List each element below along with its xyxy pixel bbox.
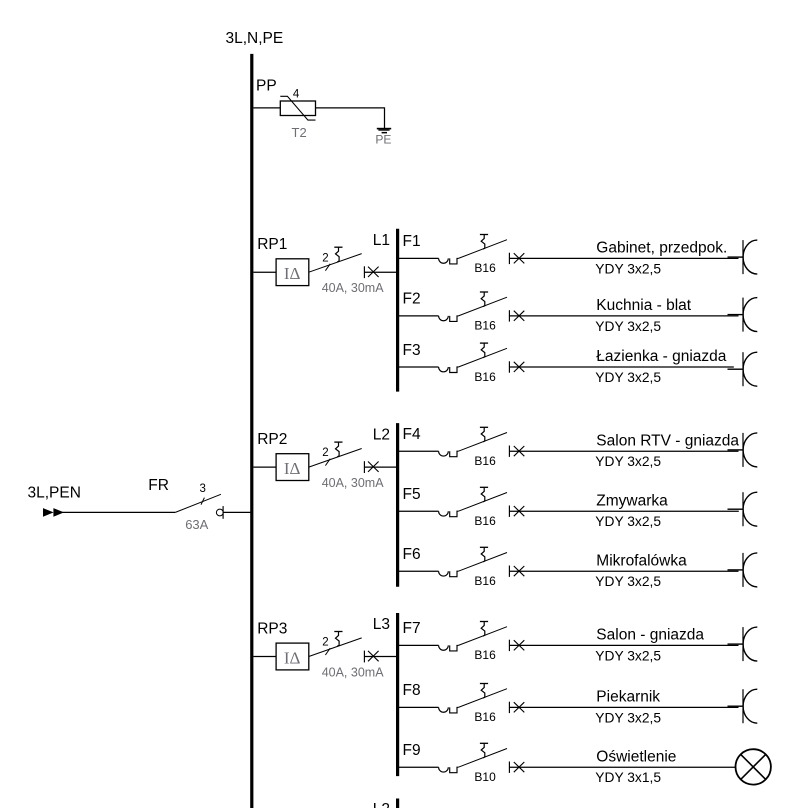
svg-text:YDY 3x2,5: YDY 3x2,5 xyxy=(595,514,661,529)
svg-text:RP1: RP1 xyxy=(257,236,287,253)
svg-text:F1: F1 xyxy=(403,233,421,250)
breaker F8 blade xyxy=(458,689,507,708)
svg-text:FR: FR xyxy=(148,477,169,494)
svg-text:Łazienka - gniazda: Łazienka - gniazda xyxy=(596,348,726,365)
svg-text:IΔ: IΔ xyxy=(284,649,301,668)
RCD RP2 pole tick xyxy=(325,459,330,466)
switch FR pole tick xyxy=(201,498,204,505)
svg-text:F4: F4 xyxy=(403,426,421,443)
incoming feed arrows xyxy=(43,508,64,517)
terminal cross (F6) xyxy=(514,566,525,576)
terminal cross (RP2) xyxy=(368,462,379,472)
svg-text:B16: B16 xyxy=(474,370,496,384)
breaker F9 blade xyxy=(458,749,507,768)
svg-text:B16: B16 xyxy=(474,454,496,468)
svg-text:RP2: RP2 xyxy=(257,431,287,448)
svg-text:3L,N,PE: 3L,N,PE xyxy=(226,30,284,47)
svg-text:B16: B16 xyxy=(474,514,496,528)
svg-text:2: 2 xyxy=(322,447,328,459)
socket symbol (F3) xyxy=(743,352,757,386)
svg-text:YDY 3x2,5: YDY 3x2,5 xyxy=(595,370,661,385)
sub bus L2 xyxy=(396,423,399,587)
terminal cross (F7) xyxy=(514,640,525,650)
breaker F5 blade xyxy=(458,493,507,512)
cable wire (F4) xyxy=(509,450,738,452)
svg-text:Mikrofalówka: Mikrofalówka xyxy=(596,552,687,569)
socket symbol (F4) xyxy=(743,433,757,467)
terminal bar (F6) xyxy=(508,566,510,577)
RCD RP2 body xyxy=(276,454,309,481)
terminal bar (RP2) xyxy=(363,461,365,473)
socket stub (F3) xyxy=(728,368,744,370)
svg-text:Gabinet, przedpok.: Gabinet, przedpok. xyxy=(596,240,727,257)
svg-text:B16: B16 xyxy=(474,574,496,588)
svg-text:3: 3 xyxy=(200,483,206,495)
terminal cross (F5) xyxy=(514,506,525,516)
wire bus to surge arrester xyxy=(253,107,280,109)
terminal cross (F2) xyxy=(514,311,525,321)
cable wire (F6) xyxy=(509,570,738,572)
wire bus to breaker F2 xyxy=(398,315,439,317)
RCD RP2 trip latch xyxy=(334,442,342,457)
wire bus to breaker F4 xyxy=(398,450,439,452)
breaker F9 trip latch xyxy=(480,743,488,758)
svg-text:B16: B16 xyxy=(474,710,496,724)
svg-text:L2: L2 xyxy=(373,427,390,444)
socket stub (F2) xyxy=(728,314,744,316)
breaker F9 thermal element xyxy=(439,767,459,773)
svg-text:YDY 3x2,5: YDY 3x2,5 xyxy=(595,454,661,469)
svg-text:L3: L3 xyxy=(373,616,390,633)
svg-text:RP3: RP3 xyxy=(257,621,287,638)
svg-text:YDY 3x2,5: YDY 3x2,5 xyxy=(595,574,661,589)
breaker F8 thermal element xyxy=(439,707,459,713)
ground symbol PE xyxy=(377,128,391,134)
breaker F8 trip latch xyxy=(480,684,488,699)
switch FR blade xyxy=(175,494,221,512)
svg-text:PE: PE xyxy=(375,132,391,146)
svg-text:B16: B16 xyxy=(474,648,496,662)
wire RCD RP1 to sub bus xyxy=(364,271,397,273)
breaker F7 thermal element xyxy=(439,645,459,651)
terminal bar (F2) xyxy=(508,310,510,321)
breaker F4 blade xyxy=(458,433,507,452)
svg-text:Oświetlenie: Oświetlenie xyxy=(596,748,676,765)
switch FR contact bar xyxy=(222,506,224,519)
wire bus to RCD RP1 xyxy=(253,271,276,273)
svg-text:IΔ: IΔ xyxy=(284,264,301,283)
switch FR fixed contact circle xyxy=(216,509,223,516)
terminal bar (F1) xyxy=(508,253,510,264)
main bus (3L,N,PE) xyxy=(250,54,253,808)
wire down to ground xyxy=(384,107,386,128)
wire switch to main bus xyxy=(223,511,252,513)
svg-text:40A, 30mA: 40A, 30mA xyxy=(322,476,385,490)
wire RCD RP2 to sub bus xyxy=(364,466,397,468)
wire RCD RP3 to sub bus xyxy=(364,656,397,658)
svg-text:YDY 3x2,5: YDY 3x2,5 xyxy=(595,319,661,334)
terminal bar (RP1) xyxy=(363,266,365,278)
breaker F3 trip latch xyxy=(480,343,488,358)
svg-text:PP: PP xyxy=(256,78,277,95)
terminal bar (F5) xyxy=(508,506,510,517)
terminal cross (F9) xyxy=(514,762,525,772)
breaker F7 blade xyxy=(458,627,507,646)
breaker F4 thermal element xyxy=(439,451,459,457)
svg-text:Zmywarka: Zmywarka xyxy=(596,492,668,509)
wire bus to breaker F1 xyxy=(398,257,439,259)
wire feed to switch FR xyxy=(63,511,176,513)
breaker F5 trip latch xyxy=(480,487,488,502)
svg-text:40A, 30mA: 40A, 30mA xyxy=(322,281,385,295)
svg-text:F5: F5 xyxy=(403,486,421,503)
breaker F5 thermal element xyxy=(439,511,459,517)
terminal bar (F8) xyxy=(508,702,510,713)
svg-text:Piekarnik: Piekarnik xyxy=(596,689,660,706)
RCD RP3 pole tick xyxy=(325,648,330,655)
socket stub (F7) xyxy=(728,643,744,645)
RCD RP3 trip latch xyxy=(334,632,342,647)
sub bus L3 xyxy=(396,613,399,776)
svg-text:4: 4 xyxy=(293,88,300,100)
terminal cross (RP1) xyxy=(368,267,379,277)
socket symbol (F6) xyxy=(743,553,757,587)
socket stub (F5) xyxy=(728,508,744,510)
terminal bar (F9) xyxy=(508,762,510,773)
terminal cross (F8) xyxy=(514,702,525,712)
cable wire (F9) xyxy=(509,766,735,768)
terminal cross (F4) xyxy=(514,446,525,456)
breaker F7 trip latch xyxy=(480,622,488,637)
svg-text:F3: F3 xyxy=(403,342,421,359)
terminal bar (F3) xyxy=(508,361,510,372)
svg-text:B10: B10 xyxy=(474,770,496,784)
svg-text:3L,PEN: 3L,PEN xyxy=(28,485,81,502)
breaker F3 thermal element xyxy=(439,367,459,373)
svg-text:Kuchnia - blat: Kuchnia - blat xyxy=(596,297,691,314)
svg-text:F2: F2 xyxy=(403,291,421,308)
wire bus to breaker F5 xyxy=(398,510,439,512)
breaker F1 blade xyxy=(458,240,507,259)
svg-text:F8: F8 xyxy=(403,682,421,699)
RCD RP1 switch blade xyxy=(309,254,362,273)
socket symbol (F1) xyxy=(743,240,757,274)
wire bus to breaker F6 xyxy=(398,570,439,572)
wire surge arrester to PE xyxy=(316,107,385,109)
cable wire (F1) xyxy=(509,257,738,259)
wire bus to breaker F8 xyxy=(398,706,439,708)
RCD RP1 trip latch xyxy=(334,247,342,262)
socket symbol (F2) xyxy=(743,298,757,332)
svg-text:2: 2 xyxy=(322,637,328,649)
terminal bar (F4) xyxy=(508,446,510,457)
svg-text:Salon RTV - gniazda: Salon RTV - gniazda xyxy=(596,432,739,449)
cable wire (F2) xyxy=(509,315,738,317)
breaker F6 blade xyxy=(458,553,507,572)
RCD RP1 body xyxy=(276,259,309,286)
wire bus to RCD RP2 xyxy=(253,466,276,468)
breaker F3 blade xyxy=(458,348,507,367)
next sub bus stub (L2) xyxy=(396,799,399,808)
svg-text:Salon - gniazda: Salon - gniazda xyxy=(596,627,704,644)
breaker F2 blade xyxy=(458,297,507,316)
socket stub (F4) xyxy=(728,449,744,451)
svg-text:YDY 3x1,5: YDY 3x1,5 xyxy=(595,770,661,785)
terminal bar (F7) xyxy=(508,640,510,651)
svg-text:L2: L2 xyxy=(373,801,390,808)
svg-text:YDY 3x2,5: YDY 3x2,5 xyxy=(595,648,661,663)
svg-text:F7: F7 xyxy=(403,620,421,637)
breaker F2 thermal element xyxy=(439,316,459,322)
wire bus to RCD RP3 xyxy=(253,656,276,658)
svg-text:63A: 63A xyxy=(185,517,208,532)
RCD RP1 pole tick xyxy=(325,264,330,271)
svg-text:40A, 30mA: 40A, 30mA xyxy=(322,665,385,679)
socket stub (F8) xyxy=(728,705,744,707)
socket symbol (F7) xyxy=(743,627,757,661)
terminal bar (RP3) xyxy=(363,651,365,663)
RCD RP3 switch blade xyxy=(309,638,362,657)
sub bus L1 xyxy=(396,229,399,392)
lamp symbol (F9) xyxy=(736,749,771,784)
cable wire (F3) xyxy=(509,366,733,368)
svg-text:YDY 3x2,5: YDY 3x2,5 xyxy=(595,710,661,725)
terminal cross (RP3) xyxy=(368,651,379,661)
svg-text:T2: T2 xyxy=(292,125,307,140)
surge arrester diagonal xyxy=(280,96,315,120)
svg-text:F6: F6 xyxy=(403,546,421,563)
breaker F6 trip latch xyxy=(480,547,488,562)
wire bus to breaker F3 xyxy=(398,366,439,368)
svg-text:F9: F9 xyxy=(403,742,421,759)
socket stub (F1) xyxy=(728,256,744,258)
breaker F2 trip latch xyxy=(480,292,488,307)
RCD RP3 body xyxy=(276,643,309,670)
socket symbol (F5) xyxy=(743,492,757,526)
surge arrester PP body xyxy=(280,101,315,116)
cable wire (F8) xyxy=(509,706,738,708)
breaker F1 thermal element xyxy=(439,258,459,264)
terminal cross (F3) xyxy=(514,362,525,372)
breaker F6 thermal element xyxy=(439,571,459,577)
RCD RP2 switch blade xyxy=(309,449,362,468)
wire bus to breaker F7 xyxy=(398,644,439,646)
svg-text:B16: B16 xyxy=(474,261,496,275)
terminal cross (F1) xyxy=(514,253,525,263)
wire bus to breaker F9 xyxy=(398,766,439,768)
cable wire (F5) xyxy=(509,510,738,512)
svg-text:YDY 3x2,5: YDY 3x2,5 xyxy=(595,261,661,276)
svg-text:2: 2 xyxy=(322,252,328,264)
socket stub (F6) xyxy=(728,569,744,571)
socket symbol (F8) xyxy=(743,689,757,723)
breaker F1 trip latch xyxy=(480,235,488,250)
breaker F4 trip latch xyxy=(480,427,488,442)
cable wire (F7) xyxy=(509,644,738,646)
svg-text:B16: B16 xyxy=(474,319,496,333)
svg-text:L1: L1 xyxy=(373,232,390,249)
svg-text:IΔ: IΔ xyxy=(284,459,301,478)
